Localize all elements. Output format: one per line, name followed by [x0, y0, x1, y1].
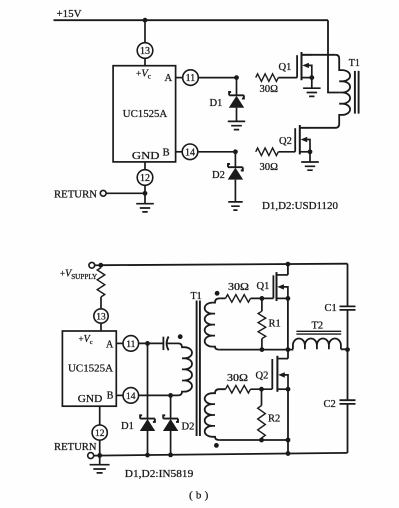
capacitor C1	[340, 306, 356, 310]
svg-text:T2: T2	[312, 321, 324, 332]
capacitor C2	[340, 400, 356, 404]
diode D1 (schottky)	[229, 92, 244, 108]
IC U1 UC1525A	[113, 66, 176, 163]
svg-text:T1: T1	[349, 58, 360, 69]
svg-text:RETURN: RETURN	[54, 442, 97, 453]
IC U2 UC1525A	[62, 331, 116, 406]
svg-text:C2: C2	[324, 399, 336, 410]
wire rail down to pin 13	[144, 20, 146, 43]
resistor 30ohm (A row)	[256, 74, 279, 82]
svg-text:R1: R1	[269, 319, 281, 330]
svg-text:11: 11	[126, 340, 135, 350]
svg-text:GND: GND	[78, 394, 103, 405]
svg-text:30Ω: 30Ω	[260, 162, 279, 173]
resistor R2	[261, 389, 263, 405]
svg-text:13: 13	[140, 46, 150, 57]
ground under D1	[228, 121, 245, 129]
svg-text:D2: D2	[182, 422, 195, 433]
wire pin 11 to node	[139, 342, 163, 344]
wire resistor to pin 13	[100, 297, 102, 309]
wire secondary bottom row (b lower)	[219, 439, 288, 441]
wire node down to D1	[147, 343, 149, 418]
phasing dot primary	[178, 334, 183, 339]
node supply junction	[98, 263, 103, 268]
svg-text:D1: D1	[121, 421, 134, 432]
node return junction	[143, 191, 148, 196]
wire IC GND to pin 12	[99, 406, 101, 425]
wire pin 12 down to return node	[144, 185, 146, 193]
pin 13 terminal circle top13	[137, 43, 153, 59]
wire pin 12 to return rail	[99, 440, 101, 455]
svg-text:GND: GND	[132, 151, 160, 162]
transformer T2 winding	[293, 338, 341, 349]
wire node to ground	[144, 193, 146, 203]
wire Q1 source down	[287, 298, 289, 349]
pin 12 terminal circle bot12	[92, 425, 107, 440]
svg-text:RETURN: RETURN	[54, 190, 97, 201]
wire D1 to ground	[236, 108, 238, 122]
node junction rail to pin 13	[143, 18, 148, 23]
svg-text:C1: C1	[325, 303, 337, 314]
wire pin 14 to winding	[139, 394, 171, 396]
pin 14 terminal circle top14	[182, 144, 198, 160]
wire +15V to T1 center tap	[328, 20, 339, 92]
svg-text:30Ω: 30Ω	[227, 373, 248, 384]
svg-text:14: 14	[185, 147, 195, 158]
wire T2 right lead	[341, 348, 348, 350]
pin 12 terminal circle top12	[137, 170, 153, 186]
capacitor coupling	[162, 337, 164, 350]
node A junction	[234, 75, 239, 80]
node B junction (b)	[168, 393, 173, 398]
node A junction (b)	[145, 341, 150, 346]
transistor Q1	[297, 52, 314, 80]
transistor Q2	[295, 125, 312, 154]
wire resistor to Q1 gate (b)	[251, 297, 274, 299]
svg-text:D1,D2:USD1120: D1,D2:USD1120	[262, 201, 338, 212]
transformer T1 primary winding	[310, 55, 350, 128]
wire node down to D2	[170, 395, 172, 418]
svg-text:UC1525A: UC1525A	[68, 363, 113, 374]
wire Q2 drain to T1 bottom	[300, 127, 310, 129]
svg-text:B: B	[107, 391, 114, 402]
svg-text:11: 11	[186, 73, 196, 84]
svg-text:(b): (b)	[189, 490, 211, 502]
resistor 30ohm (b top)	[226, 295, 251, 303]
node T2 right	[345, 347, 350, 352]
wire top rail (b)	[101, 264, 348, 266]
wire bottom rail (b)	[94, 453, 348, 456]
svg-text:12: 12	[140, 173, 150, 184]
ground at return	[136, 204, 154, 212]
T1 bottom secondary winding	[205, 389, 226, 440]
wire return to node	[106, 192, 145, 194]
wire pin 14 to node	[198, 151, 236, 153]
pin 11 terminal circle top11	[183, 70, 199, 86]
ground at Q1 source	[303, 88, 321, 96]
phasing dot top secondary	[215, 291, 220, 296]
RETURN terminal	[54, 190, 106, 201]
ground at return (b)	[99, 455, 101, 464]
diode D1 (b)	[140, 415, 155, 431]
node Q2 rail junction	[286, 451, 291, 456]
resistor 30ohm (b bottom)	[226, 385, 251, 393]
T2 core	[296, 331, 341, 334]
svg-text:A: A	[165, 73, 173, 84]
+Vsupply terminal circle	[89, 262, 95, 268]
diode D2 (b)	[163, 415, 178, 431]
resistor 30ohm (B row)	[256, 148, 279, 156]
RETURN terminal (b)	[54, 442, 97, 459]
wire resistor to Q1 gate	[278, 77, 297, 79]
wire IC B to pin 14	[116, 394, 123, 396]
svg-text:Q1: Q1	[257, 281, 270, 292]
svg-text:Q2: Q2	[256, 371, 269, 382]
wire +15V rail	[54, 19, 329, 21]
T1 core (b)	[197, 301, 200, 437]
wire pin 13 to IC	[100, 323, 102, 331]
svg-text:+15V: +15V	[57, 8, 82, 20]
wire node to D1	[236, 78, 238, 95]
transistor Q2 (b)	[272, 356, 290, 392]
svg-text:30Ω: 30Ω	[260, 84, 279, 95]
svg-text:B: B	[163, 147, 170, 158]
ground under D2	[228, 202, 243, 210]
diode D2 (schottky)	[228, 164, 243, 180]
wire IC GND to pin 12	[144, 162, 146, 170]
wire right edge top	[347, 264, 349, 307]
wire terminal to rail	[95, 264, 101, 266]
svg-text:13: 13	[96, 313, 106, 323]
wire secondary bottom row	[219, 349, 293, 351]
wire IC B to pin 14	[176, 151, 183, 153]
wire Q1 drain to T1 top	[302, 54, 336, 56]
node T2 left	[286, 347, 291, 352]
wire IC A to pin 11	[116, 342, 123, 344]
wire pin 13 to IC Vc	[144, 58, 146, 65]
svg-text:R2: R2	[268, 414, 280, 425]
wire resistor to Q2 gate (b)	[251, 388, 273, 390]
wire D1 to rail	[147, 431, 149, 455]
svg-text:A: A	[106, 340, 114, 351]
wire Q1 drain to rail	[287, 264, 289, 275]
wire D2 to rail	[170, 431, 172, 455]
T1 core	[355, 71, 359, 114]
node R1 bottom	[260, 347, 265, 352]
svg-text:D1: D1	[210, 98, 223, 109]
pin 13 terminal circle bot13	[94, 309, 108, 323]
svg-text:30Ω: 30Ω	[228, 282, 249, 293]
wire pin 11 to node	[198, 77, 236, 79]
ground at Q2 source	[301, 162, 319, 170]
svg-text:14: 14	[126, 392, 136, 402]
node R2 top junction	[259, 387, 264, 392]
resistor R1	[261, 298, 263, 311]
wire right edge middle	[347, 310, 349, 400]
node B junction	[233, 149, 238, 154]
node R1 top junction	[260, 296, 265, 301]
wire right edge bottom	[347, 404, 349, 453]
pin 14 terminal circle bot14	[123, 388, 139, 404]
svg-text:D1,D2:IN5819: D1,D2:IN5819	[125, 469, 194, 480]
node R2 bottom	[259, 438, 264, 443]
svg-text:Q2: Q2	[279, 136, 292, 147]
phasing dot bottom secondary	[214, 443, 219, 448]
resistor supply dropper	[100, 265, 102, 267]
wire resistor to Q2 gate	[278, 151, 295, 153]
wire capacitor to T1 primary	[167, 342, 178, 344]
svg-text:D2: D2	[212, 170, 225, 181]
wire IC A to pin 11	[176, 77, 183, 79]
svg-text:UC1525A: UC1525A	[123, 108, 168, 120]
wire Q1 source to ground	[311, 78, 313, 89]
pin 11 terminal circle bot11	[123, 336, 139, 352]
svg-text:T1: T1	[191, 291, 202, 302]
T1 top secondary winding	[205, 298, 226, 349]
node winding bottom junction	[286, 438, 291, 443]
svg-text:12: 12	[95, 429, 105, 439]
transistor Q1 (b)	[273, 272, 290, 301]
transformer T1 primary winding (b)	[171, 343, 192, 395]
svg-text:Q1: Q1	[279, 62, 292, 73]
wire Q2 source to ground	[309, 152, 311, 162]
wire Q2 drain up to T2 node	[287, 350, 289, 359]
wire D2 to ground	[234, 180, 236, 202]
wire node to D2	[234, 152, 236, 167]
wire Q2 source down to rail	[287, 389, 289, 453]
